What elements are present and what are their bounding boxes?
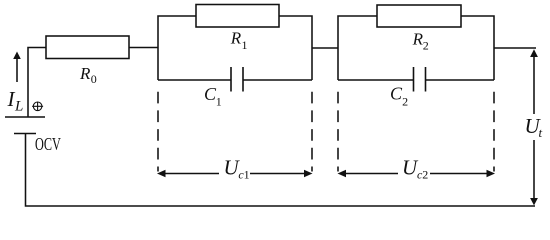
svg-text:R: R bbox=[230, 29, 242, 48]
svg-text:1: 1 bbox=[244, 168, 250, 182]
resistor R1 bbox=[196, 5, 279, 28]
svg-text:1: 1 bbox=[242, 38, 248, 52]
wire net2 left vertical bbox=[338, 16, 377, 80]
node A dashed line x158 bbox=[157, 92, 159, 172]
wire Ut arrow shaft bbox=[533, 57, 535, 198]
battery OCV short plate bbox=[14, 133, 36, 135]
wire net1 bottom left to C1 bbox=[158, 79, 231, 81]
wire Uc2 arrow shaft bbox=[345, 173, 488, 175]
node positive symbol circled plus bbox=[32, 102, 43, 111]
wire R1 right to net1 right vertical bbox=[279, 16, 312, 80]
svg-text:OCV: OCV bbox=[35, 134, 61, 154]
svg-text:2: 2 bbox=[402, 95, 408, 109]
svg-text:2: 2 bbox=[423, 39, 429, 53]
wire net2 bottom left to C2 bbox=[338, 79, 413, 81]
capacitor C2 bbox=[414, 67, 426, 92]
battery OCV long plate bbox=[5, 116, 45, 118]
arrowhead Uc2 left bbox=[338, 170, 347, 178]
node dashed line x338 bbox=[337, 92, 339, 172]
resistor R2 bbox=[377, 5, 461, 27]
svg-text:t: t bbox=[539, 125, 543, 140]
node dashed line x494 bbox=[493, 92, 495, 172]
node dashed line x312 bbox=[311, 92, 313, 172]
wire battery negative down and bottom rail bbox=[26, 134, 536, 207]
svg-text:R: R bbox=[79, 64, 91, 83]
svg-text:C: C bbox=[390, 84, 403, 104]
wire R0 to node A bbox=[129, 47, 158, 49]
arrowhead Ut up bbox=[530, 49, 538, 57]
svg-text:1: 1 bbox=[216, 95, 222, 109]
arrowhead I_L up bbox=[13, 52, 21, 60]
capacitor C1 bbox=[231, 67, 243, 92]
arrowhead Uc1 left bbox=[157, 170, 166, 178]
arrowhead Uc2 right bbox=[487, 170, 496, 178]
arrowhead Uc1 right bbox=[304, 170, 313, 178]
wire output terminal bbox=[494, 47, 536, 49]
wire node B between networks bbox=[312, 47, 338, 49]
svg-text:2: 2 bbox=[422, 168, 428, 182]
resistor R0 bbox=[46, 36, 129, 59]
wire Uc1 arrow shaft bbox=[164, 173, 305, 175]
wire net1 left vertical bbox=[158, 16, 196, 80]
svg-text:L: L bbox=[14, 99, 23, 115]
wire I_L arrow shaft bbox=[16, 58, 18, 82]
wire C2 to net2 right vertical bbox=[426, 79, 494, 81]
wire C1 to net1 right vertical bbox=[244, 79, 313, 81]
wire R2 right to net2 right vertical bbox=[461, 16, 494, 80]
svg-text:0: 0 bbox=[91, 72, 97, 86]
arrowhead Ut down bbox=[530, 198, 538, 205]
wire battery positive terminal up to R0 bbox=[28, 48, 46, 118]
